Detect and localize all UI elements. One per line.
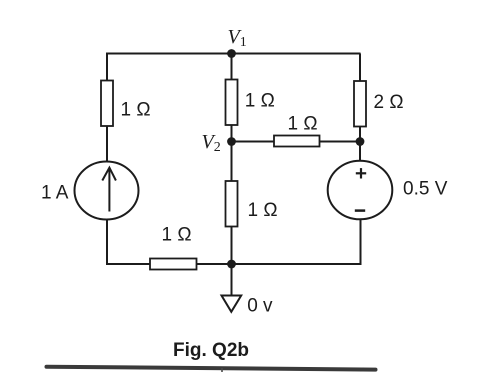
wire left branch upper (106, 54, 108, 82)
wire left branch mid (106, 126, 108, 162)
wire V2 to R3 (232, 141, 275, 143)
voltage source plus sign (356, 168, 366, 178)
resistor R5 1ohm bottom (150, 259, 197, 270)
svg-text:0.5 V: 0.5 V (403, 179, 448, 200)
resistor R4 1ohm middle bottom (226, 181, 238, 227)
current source I1 arrow (102, 168, 116, 212)
node V1 junction dot (227, 49, 236, 58)
wire ground stem (231, 264, 233, 296)
node right junction dot (356, 137, 365, 146)
resistor R1 1ohm left (101, 81, 113, 127)
resistor R2 1ohm middle top (226, 80, 238, 126)
wire right branch upper (359, 54, 361, 82)
svg-text:1 Ω: 1 Ω (245, 90, 275, 111)
svg-text:2 Ω: 2 Ω (374, 92, 404, 113)
resistor R3 1ohm horizontal (274, 136, 320, 147)
wire top horizontal (106, 53, 361, 55)
wire left branch lower (106, 220, 108, 266)
wire middle branch upper (231, 54, 233, 81)
svg-text:V1: V1 (228, 26, 247, 50)
svg-text:1 Ω: 1 Ω (162, 225, 192, 246)
svg-text:1 A: 1 A (41, 182, 69, 203)
node bottom junction dot (227, 260, 236, 269)
svg-text:Fig. Q2b: Fig. Q2b (173, 340, 249, 361)
svg-text:V2: V2 (202, 131, 221, 155)
wire middle branch lower (231, 227, 233, 265)
wire R3 to right node (320, 141, 361, 143)
svg-text:1 Ω: 1 Ω (121, 99, 151, 120)
svg-text:1 Ω: 1 Ω (248, 200, 278, 221)
node V2 junction dot (227, 137, 236, 146)
wire bottom right segment (197, 263, 361, 265)
ground symbol (222, 296, 242, 312)
wire right branch lower (360, 219, 362, 265)
current source I1 circle (75, 162, 139, 220)
svg-text:1 Ω: 1 Ω (288, 114, 318, 135)
wire bottom left segment (106, 263, 151, 265)
resistor R6 2ohm right (354, 81, 366, 127)
table column divider tick (221, 368, 223, 372)
voltage source minus sign (355, 209, 365, 212)
voltage source VS circle (328, 161, 393, 220)
table top border line (47, 367, 376, 370)
wire right branch mid (359, 127, 361, 162)
wire middle branch mid (231, 125, 233, 182)
svg-text:0 v: 0 v (247, 296, 273, 317)
